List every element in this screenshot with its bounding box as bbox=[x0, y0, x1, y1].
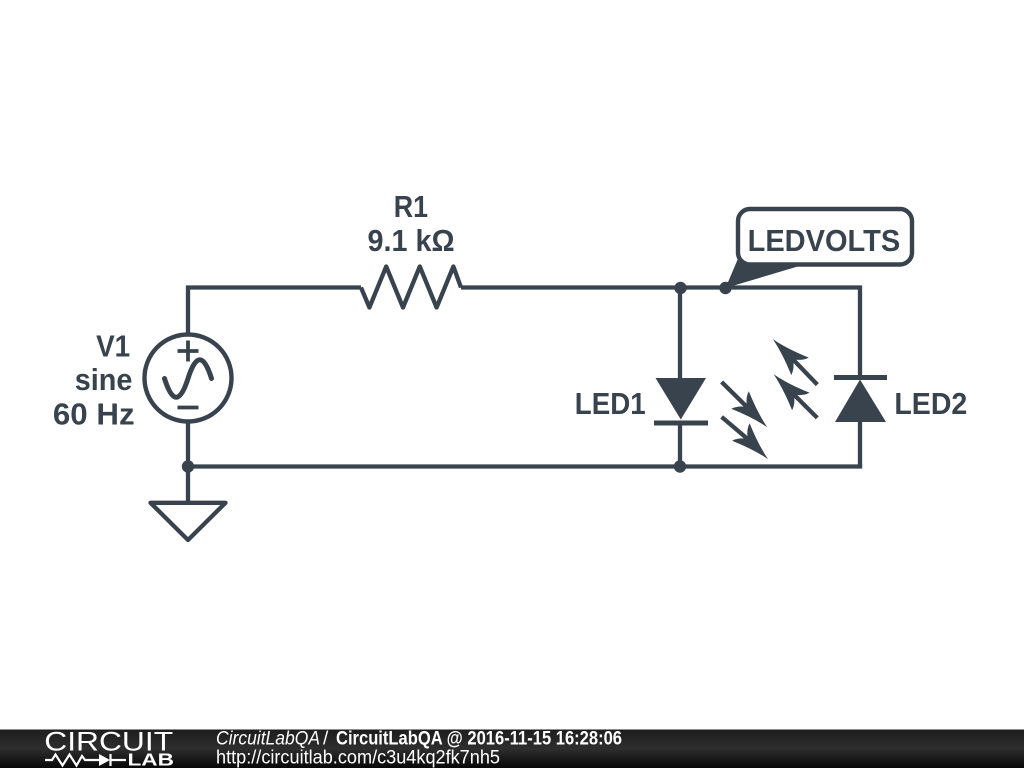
node dot LED1 bottom bbox=[674, 460, 686, 472]
svg-text:R1: R1 bbox=[394, 189, 428, 224]
wire LED1 top bbox=[678, 288, 682, 381]
wire V1 bottom bbox=[186, 421, 190, 503]
ground bbox=[151, 503, 226, 540]
node dot LEDVOLTS bbox=[719, 282, 731, 294]
voltage source V1 bbox=[145, 335, 232, 422]
wire top-left bbox=[188, 288, 361, 337]
LED LED2 bbox=[773, 339, 887, 422]
svg-text:CircuitLabQA @ 2016-11-15 16:2: CircuitLabQA @ 2016-11-15 16:28:06 bbox=[336, 728, 622, 749]
node dot LED1 top bbox=[674, 282, 686, 294]
svg-text:LAB: LAB bbox=[128, 750, 174, 768]
svg-text:V1: V1 bbox=[96, 328, 130, 363]
svg-text:sine: sine bbox=[75, 362, 133, 397]
svg-text:LED2: LED2 bbox=[894, 386, 967, 421]
resistor R1 bbox=[361, 267, 461, 308]
svg-text:LED1: LED1 bbox=[575, 386, 646, 421]
wire top-right bbox=[461, 288, 860, 380]
svg-text:CircuitLabQA: CircuitLabQA bbox=[216, 728, 320, 749]
svg-text:http://circuitlab.com/c3u4kq2f: http://circuitlab.com/c3u4kq2fk7nh5 bbox=[216, 748, 500, 768]
svg-text:LEDVOLTS: LEDVOLTS bbox=[748, 223, 901, 258]
wire LED2 bottom bbox=[858, 420, 862, 467]
wire LED1 bottom bbox=[678, 421, 682, 467]
wire bottom bbox=[188, 464, 862, 468]
svg-text:/: / bbox=[323, 728, 329, 749]
logo resistor-diode bbox=[45, 754, 126, 766]
node LEDVOLTS flag bbox=[726, 209, 913, 288]
footer bar bbox=[0, 730, 1024, 768]
LED LED1 bbox=[654, 378, 768, 459]
svg-text:9.1 kΩ: 9.1 kΩ bbox=[368, 223, 455, 258]
svg-text:60 Hz: 60 Hz bbox=[53, 396, 135, 431]
node dot left bottom bbox=[182, 460, 194, 472]
